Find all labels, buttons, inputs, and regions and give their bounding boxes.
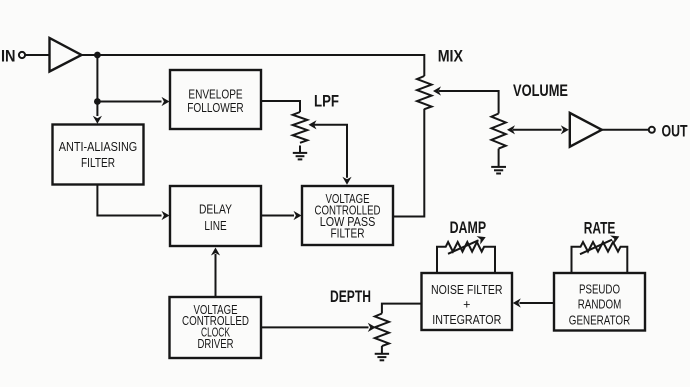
svg-text:MIX: MIX <box>438 47 464 66</box>
wire clock driver to DEPTH pot wiper <box>261 326 369 328</box>
block DELAY LINE <box>170 186 261 246</box>
block ANTI-ALIASING FILTER <box>53 125 144 185</box>
ground for LPF pot <box>293 146 307 160</box>
wire LPF wiper to VCLPF control input <box>342 177 351 185</box>
svg-text:PSEUDO: PSEUDO <box>579 283 620 297</box>
wire buffer to OUT <box>602 129 649 131</box>
svg-text:RATE: RATE <box>584 218 616 237</box>
potentiometer DAMP arrow <box>448 233 488 254</box>
junction node B <box>94 98 101 105</box>
potentiometer RATE arrow <box>580 232 621 254</box>
potentiometer LPF body <box>293 112 308 143</box>
svg-text:FILTER: FILTER <box>81 156 115 170</box>
svg-text:GENERATOR: GENERATOR <box>569 313 630 327</box>
wire VOLUME wiper to output buffer (double arrow) <box>513 129 562 131</box>
potentiometer DAMP body (bridge over noise filter) <box>437 242 495 273</box>
svg-text:DAMP: DAMP <box>450 218 487 237</box>
svg-text:DEPTH: DEPTH <box>330 287 371 306</box>
block VOLTAGE CONTROLLED LOW PASS FILTER <box>302 186 393 245</box>
block NOISE FILTER + INTEGRATOR <box>422 273 513 330</box>
wire clock driver to delay line <box>215 254 217 297</box>
op-amp buffer A1 <box>50 38 82 72</box>
wire node A down <box>96 55 98 102</box>
svg-text:IN: IN <box>1 47 16 66</box>
svg-text:DRIVER: DRIVER <box>198 337 234 351</box>
wire node B to envelope follower <box>97 101 161 103</box>
node IN terminal <box>19 52 25 58</box>
wire envelope follower to LPF pot <box>261 101 300 112</box>
svg-text:LPF: LPF <box>314 92 339 111</box>
svg-text:FOLLOWER: FOLLOWER <box>187 101 243 115</box>
svg-text:ANTI-ALIASING: ANTI-ALIASING <box>59 140 138 154</box>
ground for VOLUME pot <box>491 149 506 174</box>
potentiometer LPF wiper arrow <box>314 125 347 178</box>
svg-text:NOISE FILTER: NOISE FILTER <box>431 283 503 297</box>
wire IN to buffer <box>25 54 49 56</box>
wire pseudo random generator to noise filter <box>520 302 555 304</box>
wire DEPTH pot top to noise filter <box>382 304 422 314</box>
junction node A <box>94 52 101 59</box>
svg-text:INTEGRATOR: INTEGRATOR <box>432 313 501 327</box>
wire anti-aliasing filter to delay line <box>97 185 161 216</box>
svg-text:RANDOM: RANDOM <box>578 298 622 312</box>
wire buffer to MIX pot top <box>82 55 425 76</box>
wire VCLPF output to MIX pot bottom <box>393 109 424 217</box>
potentiometer RATE body (bridge over generator) <box>572 242 628 273</box>
op-amp output buffer A2 <box>570 113 602 147</box>
svg-text:+: + <box>463 297 470 311</box>
svg-text:FILTER: FILTER <box>331 226 365 240</box>
block VOLTAGE CONTROLLED CLOCK DRIVER <box>170 297 262 358</box>
svg-text:DELAY: DELAY <box>199 203 233 217</box>
potentiometer MIX wiper arrow <box>439 91 499 114</box>
svg-text:VOLUME: VOLUME <box>513 81 568 100</box>
wire delay line to VCLPF <box>261 215 294 217</box>
potentiometer MIX body <box>417 76 432 109</box>
potentiometer DEPTH body <box>375 314 389 347</box>
svg-text:OUT: OUT <box>662 121 688 140</box>
wire node B to anti-aliasing filter <box>96 102 98 117</box>
potentiometer VOLUME body <box>491 114 505 149</box>
svg-text:LINE: LINE <box>204 219 226 233</box>
block PSEUDO RANDOM GENERATOR <box>554 273 645 331</box>
svg-text:ENVELOPE: ENVELOPE <box>188 88 242 102</box>
node OUT terminal <box>649 127 655 133</box>
block ENVELOPE FOLLOWER <box>170 70 261 129</box>
ground for DEPTH pot <box>375 346 389 360</box>
